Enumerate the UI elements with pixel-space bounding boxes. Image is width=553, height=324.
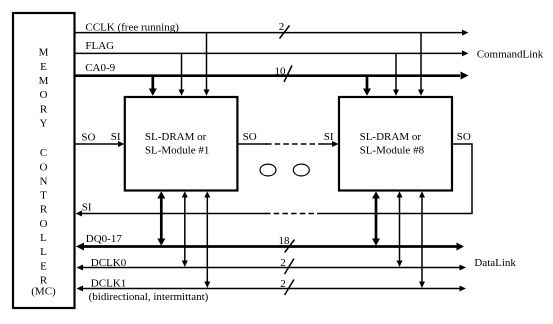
svg-text:M: M [39,75,49,87]
svg-text:SL-DRAM or: SL-DRAM or [145,131,207,143]
svg-text:2: 2 [279,21,285,33]
svg-text:18: 18 [279,235,291,247]
svg-text:2: 2 [280,257,286,269]
svg-text:C: C [40,147,47,159]
svg-text:DataLink: DataLink [474,257,516,269]
svg-text:2: 2 [280,278,286,290]
svg-text:Y: Y [40,118,48,130]
svg-text:FLAG: FLAG [85,40,114,52]
svg-text:DQ0-17: DQ0-17 [86,233,123,245]
svg-text:O: O [40,161,48,173]
svg-text:SL-Module #1: SL-Module #1 [145,144,209,156]
svg-text:E: E [40,61,47,73]
svg-text:CCLK (free running): CCLK (free running) [85,21,179,33]
svg-text:SI: SI [324,131,334,143]
svg-text:SI: SI [82,202,92,214]
svg-text:SL-DRAM or: SL-DRAM or [360,131,422,143]
svg-text:T: T [40,190,47,202]
svg-text:DCLK0: DCLK0 [91,257,127,269]
svg-text:SO: SO [457,131,471,143]
svg-text:CommandLink: CommandLink [477,48,544,60]
svg-text:L: L [40,246,47,258]
svg-text:R: R [40,275,48,287]
svg-text:R: R [40,204,48,216]
svg-text:O: O [40,89,48,101]
svg-text:SI: SI [111,131,121,143]
svg-text:10: 10 [275,66,287,78]
svg-text:L: L [40,232,47,244]
svg-text:DCLK1: DCLK1 [91,277,126,289]
svg-text:M: M [39,47,49,59]
svg-text:(MC): (MC) [31,286,56,298]
svg-text:(bidirectional, intermittant): (bidirectional, intermittant) [89,291,209,303]
svg-text:O: O [40,218,48,230]
svg-text:CA0-9: CA0-9 [85,62,115,74]
svg-text:N: N [40,175,48,187]
svg-text:R: R [40,103,48,115]
svg-text:SL-Module #8: SL-Module #8 [360,144,425,156]
svg-text:SO: SO [243,131,257,143]
svg-text:SO: SO [81,131,95,143]
svg-text:E: E [40,260,47,272]
